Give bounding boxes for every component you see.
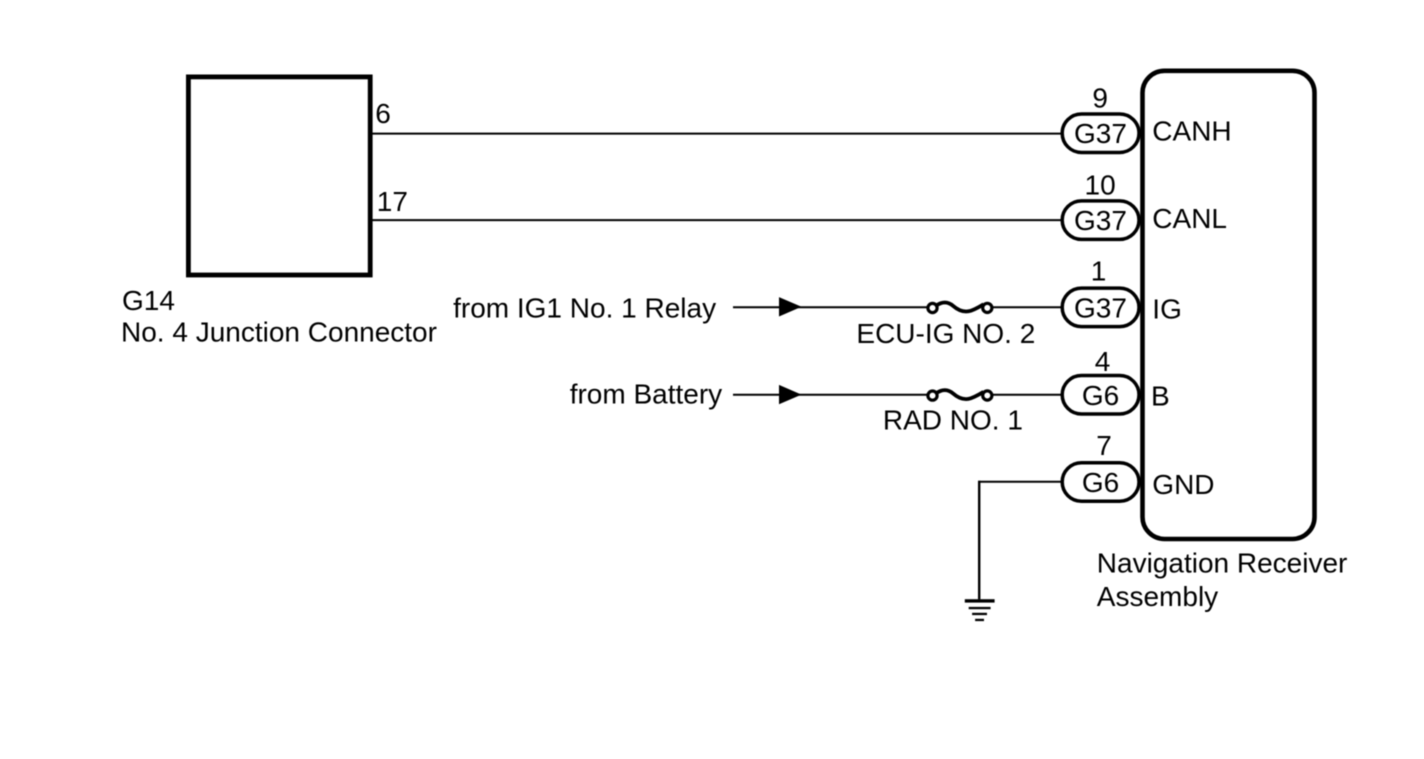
- svg-text:G37: G37: [1074, 205, 1127, 236]
- svg-text:4: 4: [1095, 346, 1111, 377]
- svg-text:Navigation Receiver: Navigation Receiver: [1097, 548, 1348, 579]
- svg-text:from IG1 No. 1 Relay: from IG1 No. 1 Relay: [453, 293, 716, 324]
- svg-text:ECU-IG NO. 2: ECU-IG NO. 2: [856, 318, 1035, 349]
- svg-text:CANH: CANH: [1152, 116, 1231, 147]
- svg-text:from Battery: from Battery: [570, 378, 722, 409]
- svg-text:7: 7: [1096, 430, 1112, 461]
- svg-text:B: B: [1151, 381, 1170, 412]
- svg-text:G37: G37: [1074, 118, 1127, 149]
- svg-text:6: 6: [375, 98, 391, 129]
- svg-text:1: 1: [1091, 256, 1107, 287]
- svg-text:G6: G6: [1082, 380, 1119, 411]
- svg-text:GND: GND: [1152, 469, 1214, 500]
- svg-text:9: 9: [1092, 82, 1108, 113]
- svg-text:G14: G14: [122, 285, 175, 316]
- svg-text:G6: G6: [1082, 467, 1119, 498]
- svg-text:10: 10: [1085, 169, 1116, 200]
- svg-text:17: 17: [377, 186, 408, 217]
- svg-text:CANL: CANL: [1152, 203, 1227, 234]
- svg-text:RAD NO. 1: RAD NO. 1: [883, 404, 1023, 435]
- svg-text:No. 4 Junction Connector: No. 4 Junction Connector: [121, 317, 437, 348]
- svg-text:G37: G37: [1074, 292, 1127, 323]
- svg-text:IG: IG: [1152, 294, 1182, 325]
- svg-text:Assembly: Assembly: [1097, 581, 1218, 612]
